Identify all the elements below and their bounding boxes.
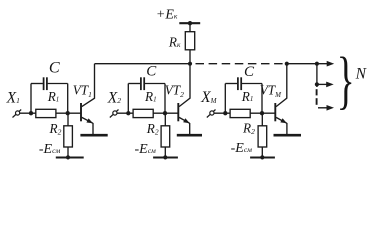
svg-text:C: C	[146, 63, 157, 79]
svg-text:N: N	[355, 65, 368, 82]
svg-text:C: C	[49, 59, 60, 77]
svg-text:}: }	[337, 45, 355, 116]
svg-text:C: C	[244, 64, 255, 80]
